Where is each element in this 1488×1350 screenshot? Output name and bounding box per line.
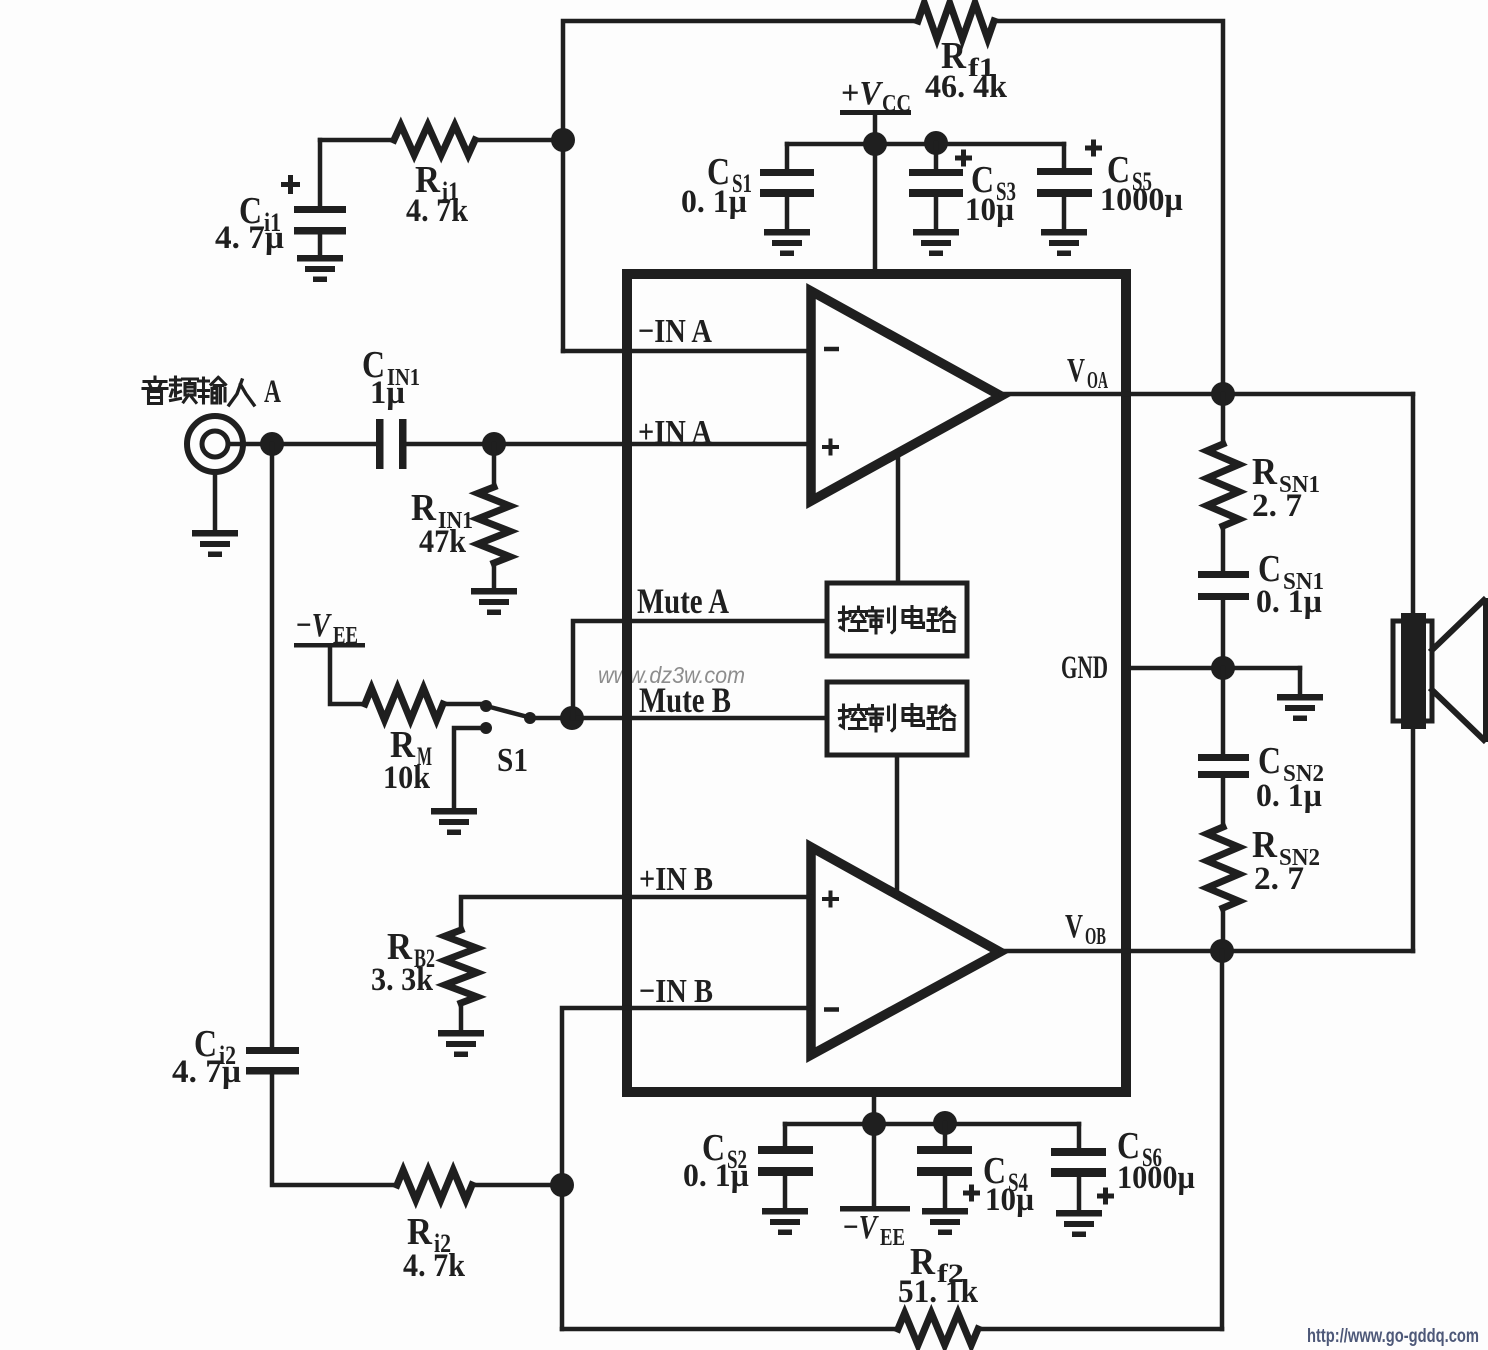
- svg-text:1000µ: 1000µ: [1100, 182, 1183, 218]
- ground GND pin: [1277, 668, 1323, 721]
- svg-text:R: R: [1252, 451, 1277, 493]
- svg-text:+IN A: +IN A: [638, 414, 712, 451]
- resistor Rf1 46.4k: [918, 3, 1008, 105]
- resistor RIN1 47k: [411, 444, 510, 589]
- svg-text:+V: +V: [841, 75, 883, 112]
- power +VCC: [840, 75, 911, 117]
- node GND junction: [1211, 656, 1235, 680]
- svg-text:46. 4k: 46. 4k: [925, 69, 1008, 105]
- power -VEE lower: [840, 1206, 910, 1251]
- svg-text:2. 7: 2. 7: [1254, 861, 1304, 897]
- wire Mute B: [572, 716, 827, 721]
- wire -IN B: [562, 1008, 811, 1329]
- resistor Ri2 4.7k: [397, 1170, 562, 1284]
- node VOB junction: [1210, 939, 1234, 963]
- node VEE junction 2: [933, 1111, 957, 1135]
- svg-text:http://www.go-gddq.com: http://www.go-gddq.com: [1307, 1326, 1479, 1347]
- label 音频输入 A: [143, 374, 281, 410]
- svg-text:10µ: 10µ: [965, 192, 1014, 228]
- svg-text:C: C: [1258, 740, 1281, 782]
- capacitor CS2 0.1u: [683, 1124, 813, 1209]
- svg-text:0. 1µ: 0. 1µ: [681, 184, 747, 220]
- svg-text:0. 1µ: 0. 1µ: [683, 1158, 749, 1194]
- node Ri2 junction: [550, 1173, 574, 1197]
- wire VOB output: [1001, 949, 1413, 954]
- svg-text:S1: S1: [497, 742, 528, 779]
- node VCC junction 2: [924, 131, 948, 155]
- op-amp B: [811, 847, 1000, 1055]
- ground input connector: [192, 472, 238, 557]
- svg-text:47k: 47k: [419, 524, 467, 560]
- capacitor Ci2 4.7u: [172, 444, 397, 1185]
- svg-text:4. 7µ: 4. 7µ: [215, 220, 284, 256]
- wire VCC vertical: [873, 115, 878, 269]
- capacitor CS4 10u: [917, 1123, 1034, 1218]
- capacitor CS6 1000u: [1051, 1124, 1195, 1211]
- wire top feedback left: [563, 21, 918, 351]
- svg-text:10k: 10k: [383, 760, 431, 796]
- svg-text:Mute A: Mute A: [637, 581, 729, 621]
- capacitor CS3 10u: [909, 143, 1016, 230]
- capacitor CSN1 0.1u: [1198, 548, 1324, 668]
- power -VEE upper: [294, 607, 365, 649]
- svg-text:3. 3k: 3. 3k: [371, 962, 434, 998]
- wire VEE rail: [785, 1122, 1079, 1127]
- speaker: [1393, 598, 1486, 742]
- svg-text:−IN B: −IN B: [639, 973, 713, 1010]
- svg-text:−V: −V: [296, 607, 332, 644]
- wire VCC rail: [787, 142, 1064, 147]
- control circuit box 2: [827, 682, 967, 755]
- wire control box 2 to op-amp B: [895, 757, 900, 895]
- wire +IN B: [461, 897, 811, 930]
- switch S1: [480, 700, 563, 779]
- wire VEE vertical: [872, 1092, 877, 1206]
- svg-text:4. 7µ: 4. 7µ: [172, 1054, 241, 1090]
- resistor RM 10k: [330, 647, 481, 796]
- svg-text:2. 7: 2. 7: [1252, 488, 1302, 524]
- wire input node: [229, 442, 376, 447]
- ground RB2: [438, 1030, 484, 1057]
- wire VOA output: [1001, 392, 1413, 397]
- svg-text:V: V: [1065, 908, 1083, 945]
- svg-text:GND: GND: [1061, 650, 1108, 686]
- op-amp A: [811, 291, 1001, 501]
- ground RIN1: [471, 588, 517, 615]
- wire GND pin: [1131, 666, 1300, 671]
- wire -IN A: [563, 349, 811, 354]
- capacitor CIN1 1u: [362, 344, 420, 469]
- resistor Ri1 4.7k: [320, 125, 563, 229]
- svg-text:1µ: 1µ: [370, 375, 405, 411]
- capacitor CSN2 0.1u: [1198, 668, 1324, 827]
- resistor RSN1 2.7: [1207, 394, 1320, 571]
- svg-text:EE: EE: [880, 1225, 905, 1251]
- capacitor CS5 1000u: [1037, 140, 1183, 231]
- ground CS6: [1056, 1210, 1102, 1237]
- wire Mute A: [573, 621, 827, 718]
- svg-text:A: A: [264, 374, 281, 410]
- node RIN1 junction: [482, 432, 506, 456]
- control circuit box 1: [827, 583, 967, 656]
- svg-text:51. 1k: 51. 1k: [898, 1274, 979, 1310]
- svg-text:Mute B: Mute B: [639, 680, 731, 720]
- ground CS5: [1041, 229, 1087, 256]
- svg-text:0. 1µ: 0. 1µ: [1256, 584, 1322, 620]
- node VCC junction 1: [863, 132, 887, 156]
- resistor RSN2 2.7: [1207, 824, 1320, 951]
- svg-text:R: R: [1252, 824, 1277, 866]
- node VEE junction 1: [862, 1112, 886, 1136]
- node mute junction: [560, 706, 584, 730]
- wire speaker loop bottom: [1411, 729, 1416, 951]
- svg-text:EE: EE: [333, 623, 358, 649]
- capacitor CS1 0.1u: [681, 144, 814, 230]
- svg-text:+IN B: +IN B: [639, 861, 713, 898]
- resistor RB2 3.3k: [371, 926, 477, 1031]
- ground Ci1: [297, 255, 343, 282]
- ground CS1: [764, 229, 810, 256]
- wire +IN A: [406, 442, 811, 447]
- svg-text:OB: OB: [1085, 924, 1106, 950]
- ground CS4: [922, 1208, 968, 1235]
- ground CS2: [762, 1208, 808, 1235]
- wire top feedback right: [994, 21, 1223, 394]
- node input junction: [260, 432, 284, 456]
- svg-text:−IN A: −IN A: [638, 313, 712, 350]
- svg-text:V: V: [1067, 352, 1085, 389]
- svg-text:OA: OA: [1087, 368, 1108, 394]
- svg-text:0. 1µ: 0. 1µ: [1256, 778, 1322, 814]
- node Ri1 feedback junction: [551, 128, 575, 152]
- ground CS3: [913, 229, 959, 256]
- svg-text:1000µ: 1000µ: [1117, 1160, 1195, 1196]
- svg-text:CC: CC: [882, 91, 911, 117]
- node VOA junction: [1211, 382, 1235, 406]
- svg-text:4. 7k: 4. 7k: [406, 193, 469, 229]
- wire op-amp A to control box 1: [896, 455, 901, 583]
- RCA input connector: [187, 416, 243, 472]
- svg-text:4. 7k: 4. 7k: [403, 1248, 466, 1284]
- IC package box: [627, 274, 1126, 1092]
- wire speaker loop down: [1411, 394, 1416, 614]
- ground S1: [431, 728, 482, 835]
- svg-text:R: R: [407, 1211, 432, 1253]
- resistor Rf2 51.1k: [562, 1241, 1222, 1345]
- capacitor Ci1 4.7u: [215, 140, 346, 256]
- svg-text:10µ: 10µ: [985, 1182, 1034, 1218]
- svg-text:−V: −V: [843, 1209, 879, 1246]
- wire VOB to bottom feedback: [1220, 951, 1225, 1329]
- svg-text:R: R: [411, 487, 436, 529]
